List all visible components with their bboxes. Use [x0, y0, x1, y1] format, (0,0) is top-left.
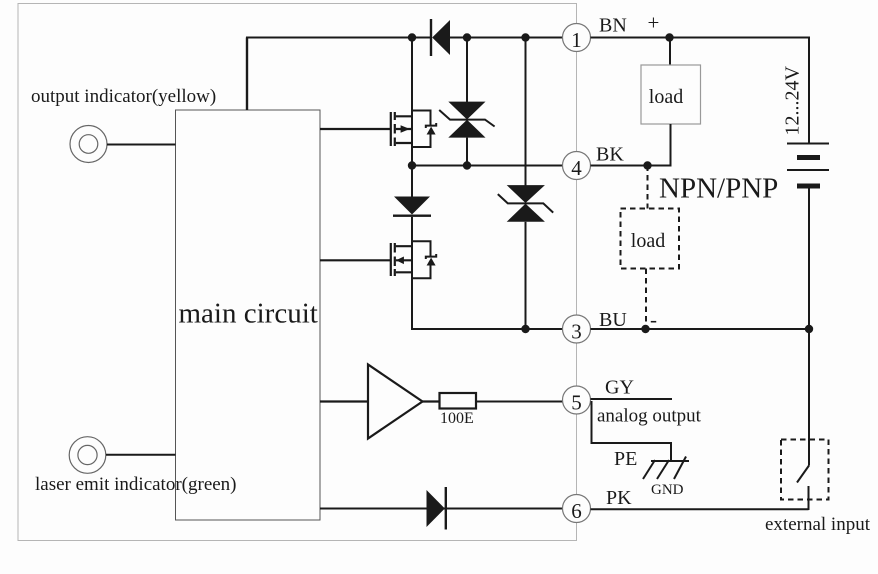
sensor housing border	[18, 4, 577, 541]
svg-text:-: -	[650, 308, 657, 332]
node A junction dot	[408, 33, 416, 41]
Q2 body arrow	[396, 257, 404, 265]
terminal 5	[563, 386, 591, 414]
svg-text:12...24V: 12...24V	[782, 66, 804, 136]
amplifier A1	[320, 365, 440, 439]
transistor Q2 N-channel MOSFET	[320, 243, 412, 276]
terminal 6	[563, 495, 591, 523]
ground symbol GND	[643, 457, 689, 480]
junction dot BU TVS2	[521, 325, 529, 333]
svg-text:laser emit indicator(green): laser emit indicator(green)	[35, 474, 237, 495]
main circuit box U1	[176, 110, 321, 520]
svg-text:6: 6	[571, 499, 582, 523]
svg-text:100E: 100E	[440, 410, 474, 427]
TVS1 bidirectional suppressor	[439, 102, 494, 138]
junction dot BU right rail	[805, 325, 813, 333]
junction dot BK dashed tap	[643, 161, 651, 169]
svg-text:PK: PK	[606, 487, 632, 509]
svg-text:PE: PE	[614, 448, 637, 470]
resistor R1	[440, 393, 477, 409]
wire terminal 4 to load branch	[591, 165, 672, 167]
svg-text:1: 1	[571, 28, 582, 52]
wire GY from terminal 5	[591, 398, 673, 400]
terminal 4	[563, 152, 591, 180]
wire terminal 3 to right rail	[591, 328, 811, 330]
svg-text:3: 3	[571, 319, 582, 343]
right rail +V vertical	[808, 38, 810, 144]
battery B1 12..24V	[787, 144, 829, 187]
svg-text:BK: BK	[596, 144, 624, 166]
wire PE branch	[592, 401, 672, 461]
wire load bottom to BK	[670, 124, 672, 166]
svg-text:GND: GND	[651, 482, 684, 498]
junction dot BK TVS1	[463, 161, 471, 169]
wire Q2 node vertical	[411, 240, 413, 329]
terminal 3	[563, 315, 591, 343]
svg-text:BN: BN	[599, 15, 627, 37]
switch S1 lower contact	[808, 486, 810, 510]
zener Z2 across Q2	[412, 241, 436, 278]
diode D3 in PK line	[427, 487, 448, 530]
node B junction dot	[463, 33, 471, 41]
TVS2 vertical wire top	[525, 38, 527, 186]
svg-text:NPN/PNP: NPN/PNP	[659, 173, 778, 205]
svg-text:external input: external input	[765, 514, 871, 535]
svg-text:load: load	[631, 230, 665, 252]
wire main circuit top to +V rail	[246, 38, 248, 111]
diode D2 between outputs	[393, 166, 431, 247]
transistor Q1 P-channel MOSFET	[320, 112, 412, 146]
svg-text:4: 4	[571, 156, 582, 180]
wire down to load	[669, 38, 671, 66]
wire laser indicator to main circuit	[106, 454, 176, 456]
dashed wire load2 to BU	[645, 269, 647, 330]
BK rail wire	[411, 165, 563, 167]
laser emit indicator LED symbol	[69, 437, 106, 474]
right rail below battery	[808, 186, 810, 330]
svg-text:5: 5	[571, 390, 582, 414]
load box dashed	[621, 209, 680, 269]
wire +V rail to terminal 1	[450, 37, 563, 39]
svg-text:analog output: analog output	[597, 406, 702, 427]
node C junction dot	[521, 33, 529, 41]
svg-text:+: +	[648, 11, 660, 35]
svg-text:main circuit: main circuit	[179, 298, 318, 330]
svg-text:output indicator(yellow): output indicator(yellow)	[31, 86, 216, 107]
right rail to switch	[808, 329, 810, 466]
external input dashed box	[781, 440, 829, 500]
diode D1 reverse-protection in +V rail	[430, 19, 450, 56]
dashed wire to load2	[647, 166, 649, 209]
output indicator LED symbol	[70, 126, 107, 163]
TVS1 vertical wire top	[466, 38, 468, 103]
wire Q1 drain-source node vertical	[411, 38, 413, 166]
junction dot BU dashed tap	[641, 325, 649, 333]
wire main circuit to diode D3	[320, 508, 563, 510]
TVS1 vertical wire bottom	[466, 138, 468, 166]
load box solid	[641, 65, 701, 124]
TVS2 vertical wire bottom	[525, 222, 527, 329]
Q1 body arrow	[401, 125, 410, 133]
junction dot BK left	[408, 161, 416, 169]
TVS2 bidirectional suppressor	[498, 185, 553, 222]
terminal 1	[563, 24, 591, 52]
wire terminal 1 to right rail	[591, 37, 811, 39]
junction dot load top	[665, 33, 673, 41]
wire output indicator to main circuit	[107, 144, 176, 146]
BU rail wire left	[412, 328, 563, 329]
wire PK from terminal 6 to switch	[591, 508, 809, 510]
switch S1 blade	[797, 466, 809, 483]
svg-text:load: load	[649, 86, 683, 108]
zener Z1 across Q1	[412, 111, 436, 148]
wire R1 to terminal 5	[476, 401, 563, 403]
svg-text:GY: GY	[605, 377, 634, 399]
wire +V top rail left segment	[246, 37, 431, 39]
svg-text:BU: BU	[599, 309, 627, 331]
